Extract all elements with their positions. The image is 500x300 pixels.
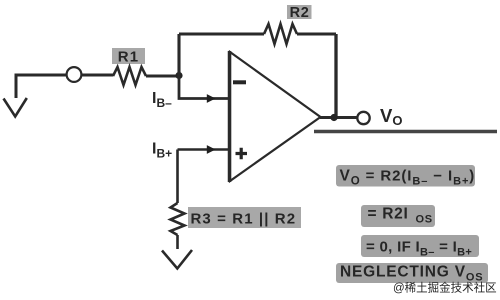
resistor R3 (vertical) bbox=[171, 203, 185, 235]
wire (long output line to right edge) bbox=[314, 130, 497, 133]
wire (feedback horizontal, right part) bbox=[297, 33, 336, 36]
node IB+ current arrow bbox=[207, 145, 216, 154]
ground (bottom, R3) bbox=[162, 250, 192, 269]
node output terminal circle bbox=[357, 112, 369, 124]
resistor R2 bbox=[264, 24, 297, 44]
wire (non-inverting input into op-amp) bbox=[178, 148, 229, 151]
op-amp non-inverting pin plus sign bbox=[236, 148, 248, 160]
node summing junction bbox=[175, 72, 182, 79]
equation line 1 box bbox=[336, 165, 475, 187]
equation line 2 box bbox=[361, 205, 435, 227]
resistor R3 formula label box bbox=[188, 207, 301, 228]
op-amp U1 triangle bbox=[230, 52, 321, 181]
svg-text:R2: R2 bbox=[290, 5, 310, 21]
wire (R1 to summing node) bbox=[146, 75, 179, 78]
wire (R3 down to ground) bbox=[176, 235, 179, 249]
wire (feedback down to output node) bbox=[334, 34, 337, 117]
wire (junction up to feedback) bbox=[177, 34, 180, 76]
resistor R2 label box bbox=[287, 5, 312, 19]
resistor R1 label box bbox=[112, 48, 145, 64]
node output junction bbox=[330, 114, 337, 121]
ground (input, top-left) bbox=[4, 98, 27, 117]
op-amp left edge thick bbox=[228, 51, 232, 182]
equation line 4 box bbox=[336, 263, 488, 283]
svg-text:@稀土掘金技术社区: @稀土掘金技术社区 bbox=[393, 281, 497, 295]
wire (inverting input, junction down and right into op-amp) bbox=[179, 76, 228, 99]
svg-text:= 0, IF IB– = IB+: = 0, IF IB– = IB+ bbox=[366, 239, 472, 259]
equation line 3 box bbox=[361, 235, 479, 257]
node input terminal circle bbox=[67, 67, 82, 82]
op-amp inverting pin minus sign bbox=[233, 80, 246, 84]
wire (output from apex to terminal) bbox=[320, 116, 358, 119]
svg-text:R1: R1 bbox=[118, 49, 140, 66]
wire (input corner + horizontal run to R1) bbox=[16, 75, 113, 98]
wire (feedback horizontal, left part) bbox=[179, 33, 264, 36]
node IB- current arrow bbox=[207, 94, 216, 103]
svg-text:R3 = R1 || R2: R3 = R1 || R2 bbox=[191, 211, 297, 228]
wire (non-inverting node down to R3) bbox=[176, 150, 179, 204]
resistor R1 bbox=[113, 67, 146, 85]
svg-text:NEGLECTING VOS: NEGLECTING VOS bbox=[340, 264, 483, 284]
